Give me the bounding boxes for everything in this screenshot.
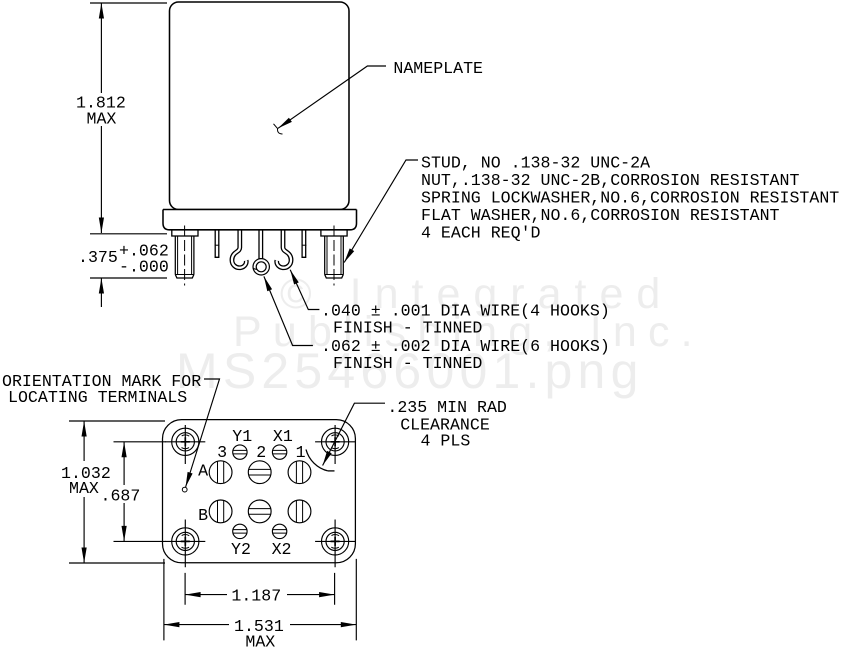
- svg-text:FINISH - TINNED: FINISH - TINNED: [333, 319, 482, 338]
- terminal base plate (bottom view): [163, 420, 356, 563]
- dimension 1.187 line: [185, 594, 335, 596]
- dimension 1.812 extension line (top): [90, 2, 167, 4]
- svg-text:2: 2: [256, 443, 266, 462]
- arrowhead down 1.812: [99, 218, 104, 234]
- leader .062 wire: [264, 276, 313, 345]
- mounting flange: [163, 210, 357, 230]
- svg-text:MAX: MAX: [69, 479, 99, 498]
- svg-text:1.187: 1.187: [231, 587, 281, 606]
- arrowhead up .375: [99, 278, 104, 294]
- svg-text:1: 1: [296, 443, 306, 462]
- svg-text:.687: .687: [101, 487, 141, 506]
- leader STUD: [344, 160, 418, 263]
- svg-text:B: B: [198, 506, 208, 525]
- terminal center row3: [248, 500, 271, 523]
- svg-text:A: A: [198, 462, 208, 481]
- hook terminal left (4-hook wire): [232, 228, 246, 268]
- svg-text:FLAT WASHER,NO.6,CORROSION RES: FLAT WASHER,NO.6,CORROSION RESISTANT: [421, 206, 780, 225]
- dimension .375 lower leg: [100, 278, 102, 307]
- straight pin left (side view): [215, 228, 220, 258]
- loop terminal center (6-hook wire): [253, 228, 268, 273]
- dimension .687 line: [123, 442, 125, 542]
- dimension 1.187 extension lines: [185, 573, 335, 605]
- dimension 1.812 line: [100, 3, 102, 233]
- relay case body (side view): [170, 2, 350, 210]
- leader .040 wire: [290, 270, 319, 310]
- svg-text:MAX: MAX: [245, 633, 275, 650]
- svg-text:3: 3: [217, 443, 227, 462]
- terminal pin 1: [288, 461, 311, 484]
- svg-text:Y2: Y2: [231, 540, 251, 559]
- terminal Y1: [233, 445, 247, 459]
- orientation mark: [182, 487, 187, 492]
- mounting stud bottom-right: [315, 520, 355, 568]
- svg-text:-.000: -.000: [119, 258, 169, 277]
- dimension 1.531 line: [164, 624, 356, 626]
- svg-text:X2: X2: [272, 540, 292, 559]
- svg-text:.062 ± .002 DIA WIRE(6 HOOKS): .062 ± .002 DIA WIRE(6 HOOKS): [321, 337, 610, 356]
- svg-text:X1: X1: [273, 427, 293, 446]
- dimension 1.531 extension lines: [164, 559, 356, 641]
- straight pin right (side view): [302, 228, 307, 258]
- terminal B: [209, 500, 232, 523]
- svg-text:.375: .375: [78, 248, 118, 267]
- radius clearance arc: [306, 450, 328, 471]
- terminal X1: [272, 445, 286, 459]
- leader orientation mark: [186, 379, 220, 487]
- dimension 1.032 line: [83, 421, 85, 563]
- arrowhead up 1.812: [99, 3, 104, 19]
- svg-text:NUT,.138-32 UNC-2B,CORROSION R: NUT,.138-32 UNC-2B,CORROSION RESISTANT: [421, 171, 799, 190]
- terminal pin 2 center: [248, 461, 271, 484]
- stud left (side view): [172, 226, 198, 286]
- mounting stud top-right: [315, 425, 355, 464]
- hook terminal right (4-hook wire): [277, 228, 291, 268]
- stud right (side view): [321, 226, 347, 286]
- dimension .375 extension lines: [90, 234, 167, 278]
- svg-text:Y1: Y1: [232, 427, 252, 446]
- leader NAMEPLATE: [278, 66, 386, 128]
- svg-text:.040 ± .001 DIA WIRE(4 HOOKS): .040 ± .001 DIA WIRE(4 HOOKS): [321, 302, 610, 321]
- svg-text:.235 MIN RAD: .235 MIN RAD: [387, 398, 507, 417]
- terminal X2: [272, 524, 286, 538]
- svg-text:NAMEPLATE: NAMEPLATE: [393, 59, 483, 78]
- leader .235 radius: [323, 403, 385, 465]
- svg-text:4 EACH REQ'D: 4 EACH REQ'D: [421, 224, 541, 243]
- svg-text:FINISH - TINNED: FINISH - TINNED: [333, 354, 482, 373]
- mounting stud top-left: [165, 425, 205, 464]
- svg-text:SPRING LOCKWASHER,NO.6,CORROSI: SPRING LOCKWASHER,NO.6,CORROSION RESISTA…: [421, 189, 839, 208]
- terminal right row3: [288, 500, 311, 523]
- dimension .687 extension lines: [114, 442, 167, 542]
- svg-text:MAX: MAX: [87, 110, 117, 129]
- mounting stud bottom-left: [165, 520, 205, 568]
- dimension 1.032 extension lines: [69, 421, 165, 563]
- svg-text:LOCATING TERMINALS: LOCATING TERMINALS: [8, 388, 187, 407]
- svg-text:STUD, NO .138-32 UNC-2A: STUD, NO .138-32 UNC-2A: [421, 153, 650, 172]
- terminal Y2: [233, 524, 247, 538]
- svg-text:4 PLS: 4 PLS: [421, 432, 471, 451]
- terminal A (pin 3): [209, 461, 232, 484]
